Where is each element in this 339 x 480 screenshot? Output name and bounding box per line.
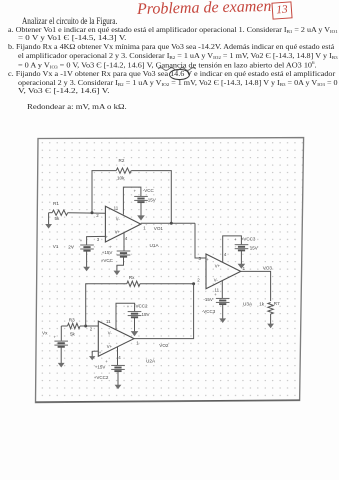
wavy underline under 'Ganancia de': [157, 66, 201, 72]
svg-text:R7: R7: [274, 301, 280, 306]
svg-text:V1: V1: [53, 244, 59, 249]
svg-text:15V: 15V: [142, 312, 150, 317]
node U2A inverting input: [84, 325, 87, 328]
ground Vx ground: [58, 347, 65, 368]
wire VO1 out: [141, 222, 195, 224]
ground +VCC3 ground: [238, 251, 246, 269]
battery -VCC2 15V: [128, 312, 142, 318]
svg-text:U1A: U1A: [150, 243, 160, 248]
ground V1 ground: [83, 251, 90, 271]
svg-text:V+: V+: [215, 263, 221, 268]
svg-text:+: +: [106, 234, 109, 239]
svg-text:15V: 15V: [148, 197, 156, 202]
wire pin3 gnd stub: [92, 351, 98, 353]
svg-text:1k: 1k: [259, 301, 265, 306]
node Rx / VO2 / U3A V-: [192, 282, 195, 285]
wire R2 right to VO1: [131, 171, 171, 224]
svg-text:2V: 2V: [68, 244, 75, 249]
svg-text:-VCC: -VCC: [143, 188, 155, 193]
svg-text:10k: 10k: [117, 176, 125, 181]
ink ellipse around 14.6: [169, 69, 190, 81]
wire pin4 supply: [123, 233, 125, 251]
svg-text:11: 11: [106, 319, 111, 324]
wire R2 left feedback: [92, 171, 116, 213]
wire Vx up: [60, 326, 62, 341]
battery +VCC 15V: [117, 251, 131, 257]
svg-text:R1: R1: [53, 201, 59, 206]
resistor R3: [68, 323, 81, 328]
svg-text:+VCC: +VCC: [101, 258, 114, 263]
node VO1: [170, 222, 173, 225]
battery V1 2V: [80, 245, 94, 251]
svg-text:+: +: [99, 350, 102, 355]
wire pin11 supply: [123, 187, 140, 214]
svg-text:VO1: VO1: [154, 226, 164, 231]
svg-text:R2: R2: [119, 158, 125, 163]
resistor Rx: [127, 281, 140, 286]
svg-text:V-: V-: [108, 330, 113, 335]
wire R1 left: [49, 212, 53, 214]
svg-text:U2A: U2A: [146, 359, 156, 364]
ground +VCC ground: [114, 267, 121, 276]
ground -VCC2 ground: [131, 318, 139, 337]
ground +VCC2 ground: [115, 371, 122, 389]
node R1/R2 junction: [91, 211, 94, 214]
wire R1 right to U1A pin2: [68, 212, 106, 215]
wire pin11 supply: [221, 281, 223, 298]
resistor R2: [116, 168, 131, 173]
svg-text:+15V: +15V: [102, 250, 113, 255]
wire pin4 supply: [223, 236, 242, 263]
svg-text:+VCC3: +VCC3: [241, 237, 256, 242]
ground -VCC3 ground: [219, 304, 226, 323]
op-amp U1A: [105, 206, 140, 242]
wire U1A pin3 to V1: [87, 236, 106, 244]
battery -VCC 15V: [134, 196, 148, 202]
svg-text:+15V: +15V: [95, 364, 106, 369]
svg-text:V-: V-: [116, 216, 121, 221]
ground R1 ground: [45, 213, 52, 229]
svg-text:5k: 5k: [55, 216, 61, 221]
svg-text:-15V: -15V: [203, 297, 213, 302]
battery +VCC3 15V: [235, 245, 249, 251]
wire VO2 out up to node: [134, 284, 194, 339]
battery +VCC2 15V: [111, 365, 125, 371]
svg-text:Vx: Vx: [42, 331, 48, 336]
svg-text:-VCC3: -VCC3: [202, 309, 216, 314]
ground -VCC ground: [137, 202, 145, 220]
op-amp U2A: [98, 321, 134, 356]
svg-text:V+: V+: [107, 344, 113, 349]
board frame: [36, 138, 304, 403]
wire Rx to U3A pin2: [140, 283, 194, 285]
svg-text:Rx: Rx: [129, 275, 135, 280]
wire U2A pin2 up to Rx: [86, 284, 127, 326]
wire VO3 out: [241, 271, 271, 301]
resistor R1: [52, 210, 67, 215]
svg-text:R3: R3: [69, 318, 75, 323]
svg-text:-VCC2: -VCC2: [134, 304, 148, 309]
svg-text:+: +: [206, 257, 209, 262]
wire +VCC gnd jog: [117, 257, 124, 267]
op-amp U3A: [206, 254, 241, 289]
printed problem text: [22, 17, 117, 26]
ground R7 ground: [267, 314, 274, 328]
svg-text:+VCC2: +VCC2: [94, 375, 109, 380]
handwritten red box 13: [271, 1, 292, 19]
svg-text:15V: 15V: [250, 246, 258, 251]
svg-text:5k: 5k: [70, 331, 76, 336]
svg-text:U3A: U3A: [243, 302, 253, 307]
handwritten red title: [136, 0, 271, 18]
wire pin11 supply: [116, 303, 135, 330]
resistor R7 1k: [268, 303, 273, 315]
ground U2A pin3 ground: [89, 353, 95, 361]
battery -VCC3 15V: [216, 298, 230, 304]
wire VO1 to U3A V+: [195, 223, 206, 258]
wire R3 to U2A pin2: [80, 325, 98, 327]
svg-text:V-: V-: [214, 277, 219, 282]
battery Vx: [54, 341, 68, 347]
wire Vx to R3: [61, 325, 67, 327]
svg-text:VO2: VO2: [159, 343, 169, 348]
svg-text:VO3: VO3: [263, 266, 273, 271]
wire pin4 supply: [117, 347, 119, 365]
svg-text:11: 11: [114, 206, 119, 211]
svg-text:V+: V+: [115, 230, 121, 235]
